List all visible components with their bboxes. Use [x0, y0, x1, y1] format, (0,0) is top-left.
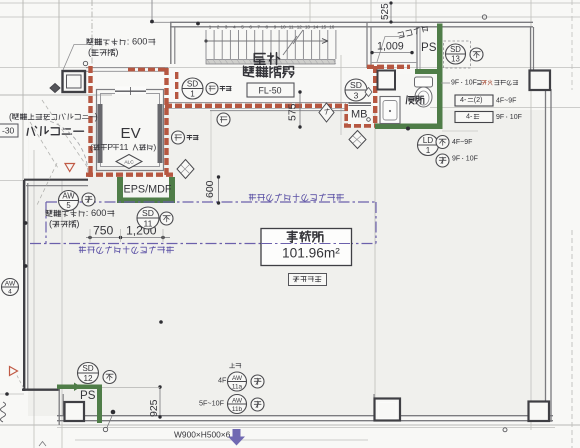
grid v x23 — [22, 0, 24, 260]
white patch PS top — [420, 27, 437, 69]
label 5F-10F — [199, 399, 225, 408]
svg-text:5: 5 — [66, 201, 71, 210]
door SD12 — [78, 363, 99, 384]
label 9F10F — [452, 156, 478, 163]
circle fu c — [103, 371, 116, 384]
grid v x152 — [151, 0, 153, 21]
ALC diamond EV — [116, 155, 142, 169]
EV rail left — [98, 104, 103, 163]
svg-text:): ) — [95, 111, 98, 121]
column bottom-right — [529, 402, 550, 422]
dot left wall window top — [24, 221, 28, 225]
grid v x371 — [370, 0, 372, 22]
wall top-right connector — [530, 27, 532, 70]
svg-text:13: 13 — [305, 25, 311, 30]
door SD1 — [182, 78, 203, 99]
circle net b — [251, 375, 264, 388]
svg-text:PS: PS — [80, 389, 96, 402]
MB box — [348, 106, 372, 124]
column bottom-left — [65, 402, 85, 421]
svg-text:6: 6 — [249, 25, 252, 30]
red triangle balcony — [65, 164, 75, 172]
svg-text:LD: LD — [423, 136, 434, 145]
stair break slash — [283, 30, 303, 55]
door SD3 — [345, 79, 367, 101]
svg-text:9F: 9F — [451, 80, 459, 87]
diamond su (stair) — [319, 103, 334, 122]
break zigzag bottom-left — [1, 402, 6, 422]
fire spread line A vertical left x46 — [45, 202, 47, 244]
small circle bottom right — [503, 428, 507, 432]
smoke barrier text 3 — [187, 135, 198, 140]
ALC diamond corridor (hatched) — [177, 160, 194, 179]
grid v x92 centerline — [91, 0, 93, 65]
svg-text:AW: AW — [232, 375, 243, 382]
svg-text:4F~9F: 4F~9F — [496, 98, 516, 105]
grid v x59 — [58, 0, 60, 67]
dim 575 vertical — [299, 92, 301, 127]
grid v x531 — [530, 0, 532, 430]
grid line h y17 — [0, 16, 580, 18]
dim 750/1200 — [86, 237, 170, 239]
svg-text:12: 12 — [297, 25, 303, 30]
natural smoke vent box — [289, 274, 327, 286]
wall stair left — [170, 23, 172, 64]
svg-text:3: 3 — [354, 90, 359, 100]
door SD11 — [137, 207, 159, 229]
svg-text:11: 11 — [119, 142, 128, 152]
svg-text:AW: AW — [232, 397, 243, 404]
svg-text:(2): (2) — [474, 95, 483, 104]
window AW11b — [228, 395, 247, 414]
circle net a — [82, 193, 95, 206]
hatch note bottom — [46, 208, 114, 218]
stair direction line with arrow — [206, 40, 328, 42]
dot office left — [159, 320, 163, 324]
svg-text:600: 600 — [204, 180, 216, 198]
svg-text:4-: 4- — [466, 112, 473, 121]
red fire wall EV left — [88, 66, 92, 177]
svg-text:925: 925 — [148, 399, 160, 417]
svg-text:1: 1 — [426, 146, 431, 155]
MB shaft square — [378, 71, 396, 90]
wall drain area bottom — [371, 62, 417, 64]
smoke barrier circle 3 — [172, 131, 185, 144]
svg-text:9F: 9F — [452, 156, 460, 163]
office interior tint — [28, 110, 545, 416]
smoke barrier circle 2 — [217, 113, 230, 126]
wall bottom-left corner — [22, 389, 60, 391]
toilet bowl — [415, 77, 433, 87]
grid v x375 office partition — [374, 110, 376, 415]
EV shaft inner wall — [101, 94, 160, 167]
balcony dashed diagonal — [42, 100, 88, 168]
grid v x341 — [340, 55, 342, 135]
grid line h y427 — [57, 427, 555, 429]
svg-text:11: 11 — [144, 218, 153, 228]
red fire wall EV top — [86, 67, 168, 69]
svg-text:SD: SD — [82, 364, 93, 373]
svg-text:-30: -30 — [2, 126, 15, 136]
EPS/MDF label — [124, 183, 172, 195]
svg-text:PS: PS — [421, 41, 437, 54]
dot top wall a — [150, 20, 154, 24]
wall corridor mid line — [165, 108, 350, 110]
office label box — [261, 229, 352, 266]
tiny diamond near SD3 — [365, 88, 372, 97]
circle fu a — [470, 48, 483, 61]
toilet room label — [406, 96, 424, 104]
svg-text:10: 10 — [281, 25, 287, 30]
dot left wall window bottom — [24, 264, 28, 268]
label 4F — [218, 376, 227, 385]
svg-text:SD: SD — [350, 80, 362, 90]
window AW11a — [228, 372, 247, 391]
grid v x211 corridor — [210, 110, 212, 202]
outdoor stair label 1 — [254, 53, 279, 65]
green wall PS-toilet right vertical — [437, 24, 443, 130]
balcony label — [27, 126, 83, 135]
svg-text:4-: 4- — [460, 95, 467, 104]
leader to lower hatch note — [37, 163, 57, 205]
column bottom-middle — [373, 394, 375, 399]
window AW4 — [2, 279, 19, 296]
hatch note top — [87, 37, 155, 47]
dim 925 vertical — [159, 387, 161, 417]
red fire wall stair-left vertical — [175, 72, 178, 102]
red fire wall EV right — [164, 68, 168, 177]
white patch toilet — [377, 74, 437, 124]
svg-text:525: 525 — [380, 3, 391, 20]
dim 525 vertical — [390, 3, 392, 22]
grid v x572 top — [571, 0, 573, 90]
dim 1009 — [372, 52, 412, 54]
svg-text:): ) — [153, 142, 156, 152]
grid line h y394 left — [0, 393, 24, 395]
EPS/MDF green wall left — [117, 177, 123, 203]
door LD1 — [418, 135, 439, 156]
svg-text:): ) — [115, 47, 118, 57]
stair landing platform hatched — [206, 60, 335, 65]
svg-text:(: ( — [9, 111, 12, 121]
purple down arrow — [228, 429, 245, 446]
EV capacity label — [90, 142, 156, 152]
wall balcony bottom — [24, 179, 88, 181]
EV door — [115, 87, 146, 95]
spec box 4-1 label — [496, 98, 516, 105]
grid v x34 — [33, 150, 35, 448]
grid line h y440 bottom dim — [75, 439, 368, 441]
svg-text:3: 3 — [225, 25, 228, 30]
wall corridor upper line — [165, 102, 350, 104]
svg-text:): ) — [76, 219, 79, 229]
svg-text:AW: AW — [62, 192, 75, 201]
svg-text:4F~9F: 4F~9F — [452, 139, 472, 146]
svg-text:ALC: ALC — [124, 160, 134, 166]
green wall PS bottom-left top with arrow — [57, 385, 102, 390]
label 4F-9F — [452, 139, 472, 146]
wall top (double line) — [170, 21, 533, 23]
stair treads — [206, 30, 336, 59]
svg-text:W900×H500×6: W900×H500×6 — [174, 430, 231, 440]
balcony dashed arc — [33, 118, 88, 172]
spec box 4-2 label — [496, 114, 522, 121]
grid line h y107 right — [430, 107, 580, 109]
window AW5 — [59, 191, 79, 211]
svg-text:1,009: 1,009 — [377, 41, 404, 53]
white patch drain — [371, 27, 417, 63]
green wall toilet bottom — [375, 124, 437, 130]
grid h y131 toilet right — [442, 130, 478, 132]
PS label top — [421, 41, 437, 54]
circle fu b — [160, 212, 173, 225]
svg-text:12: 12 — [83, 374, 93, 383]
svg-text:11b: 11b — [232, 406, 243, 413]
spec box 4-1 — [455, 112, 493, 123]
svg-text:15: 15 — [321, 25, 327, 30]
EV rail right — [158, 104, 163, 163]
svg-text:SD: SD — [187, 80, 198, 89]
grid v x416 — [415, 0, 417, 22]
red fire wall MB bottom — [344, 123, 378, 127]
fire spread text B — [79, 246, 174, 253]
svg-text:EPS/MDF: EPS/MDF — [124, 183, 172, 195]
red fire wall MB shaft right vertical — [373, 66, 377, 126]
svg-text:11a: 11a — [232, 384, 243, 391]
svg-text:14: 14 — [313, 25, 319, 30]
wall bottom (double line) — [57, 415, 553, 417]
white patch balcony — [29, 96, 89, 179]
wall corridor lower line — [210, 110, 367, 112]
wall stair right — [366, 23, 368, 68]
svg-text:9: 9 — [274, 25, 277, 30]
dim 600 vertical — [218, 177, 220, 203]
dark diamond marker — [50, 84, 60, 93]
office area — [282, 245, 340, 260]
svg-text:5: 5 — [241, 25, 244, 30]
svg-text:13: 13 — [451, 55, 460, 64]
svg-text:4: 4 — [233, 25, 236, 30]
wall right (double line) — [545, 89, 547, 403]
drain label — [398, 25, 429, 38]
svg-text:(: ( — [90, 142, 93, 152]
svg-text:SD: SD — [450, 45, 461, 54]
balcony note — [9, 111, 98, 121]
EV shaft outer wall — [97, 90, 164, 171]
door SD13 — [446, 44, 466, 64]
smoke barrier circle 1 — [206, 83, 218, 95]
svg-text:: 600: : 600 — [127, 37, 148, 47]
svg-text:2: 2 — [217, 25, 220, 30]
dot green line — [406, 127, 410, 131]
small circle marker near hatch — [83, 61, 87, 65]
MB label — [351, 109, 368, 121]
svg-text:10F: 10F — [465, 80, 477, 87]
fire spread text A — [249, 194, 344, 201]
red fire wall MB left vertical — [344, 104, 348, 126]
PS bottom label — [80, 389, 96, 402]
white patch EV interior — [101, 94, 159, 166]
red fire wall corridor — [165, 104, 346, 108]
spec box 4-2 — [455, 95, 493, 106]
green wall PS bottom-left right — [97, 385, 102, 424]
svg-text:4: 4 — [8, 288, 12, 295]
wall left dark — [23, 180, 25, 391]
dot big bottom — [111, 410, 116, 415]
svg-text:SD: SD — [142, 208, 154, 218]
small circle bottom left with leader — [103, 427, 107, 431]
circle fu d — [436, 136, 449, 149]
washbasin — [380, 97, 400, 124]
svg-text:16: 16 — [329, 25, 335, 30]
svg-text:11: 11 — [289, 25, 294, 30]
svg-text:10F: 10F — [466, 156, 478, 163]
grid line h y180 left — [0, 180, 24, 182]
fire spread line B horizontal y243.5 — [30, 243, 376, 245]
FL-30 box — [0, 124, 18, 137]
svg-text:7: 7 — [257, 25, 260, 30]
fire spread line A horizontal y202 — [46, 201, 376, 203]
red fire wall EV bottom — [86, 172, 176, 176]
white patch EPS interior — [123, 177, 169, 198]
svg-text:MB: MB — [351, 109, 368, 121]
svg-text:: 600: : 600 — [86, 208, 107, 218]
svg-text:8: 8 — [266, 25, 269, 30]
leader dash from triangle — [17, 376, 24, 390]
drain leader — [377, 37, 400, 63]
ALC diamond toilet — [349, 131, 366, 149]
grid v x62 — [61, 180, 63, 448]
dot left grid — [5, 392, 9, 396]
grid v x572 right edge — [571, 230, 573, 448]
office name — [287, 231, 323, 242]
dim extension ticks — [89, 229, 91, 242]
svg-text:9F: 9F — [496, 114, 504, 121]
grid line top border — [0, 2, 580, 4]
svg-text:EV: EV — [121, 125, 141, 142]
svg-text:750: 750 — [93, 223, 114, 237]
dot top wall b — [196, 22, 200, 26]
hatch leader — [63, 45, 87, 71]
wall top thin lead-in — [150, 21, 170, 23]
window spec note — [174, 430, 231, 440]
svg-text:101.96m²: 101.96m² — [282, 245, 340, 260]
column hatch top-left (escape hatch square) — [63, 71, 86, 92]
circle net c — [251, 398, 264, 411]
svg-text:AW: AW — [5, 280, 16, 287]
smoke barrier text 1 — [220, 86, 231, 91]
svg-text:1: 1 — [190, 89, 195, 98]
small circle top right — [482, 15, 486, 19]
wall PS left — [416, 27, 418, 70]
circle net d — [436, 154, 449, 167]
svg-text:10F: 10F — [510, 114, 522, 121]
svg-text:4F: 4F — [218, 376, 227, 385]
fire spread line vertical right x376 — [375, 202, 377, 244]
svg-text:575: 575 — [287, 103, 299, 121]
green wall toilet top — [415, 69, 437, 74]
svg-text:P: P — [107, 142, 113, 152]
EPS/MDF green wall right — [169, 177, 175, 203]
outdoor stair label 2 — [244, 66, 294, 77]
grid v x310 — [309, 0, 311, 22]
EPS/MDF green wall bottom — [117, 198, 175, 204]
fireproof wall note — [451, 80, 481, 87]
red fire wall MB shaft top — [367, 65, 410, 69]
red triangle bottom-left — [10, 367, 18, 376]
grid line h y67 — [0, 67, 580, 69]
svg-text:1: 1 — [209, 25, 212, 30]
svg-text:5F~10F: 5F~10F — [199, 399, 225, 408]
svg-text:FL-50: FL-50 — [259, 86, 282, 96]
grid line h y95 balcony top — [0, 94, 112, 96]
label upper part — [230, 363, 241, 368]
door SD13 dashed box — [444, 41, 471, 68]
bottom tick triangle — [39, 442, 46, 447]
grid line h y425 bottom — [0, 424, 580, 426]
EV label — [121, 125, 141, 142]
FL-50 box — [247, 83, 294, 97]
column top-right — [530, 71, 551, 91]
